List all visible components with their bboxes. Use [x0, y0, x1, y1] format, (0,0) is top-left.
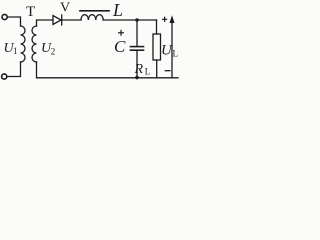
svg-text:2: 2 [51, 47, 56, 57]
wire primary bottom lead [7, 62, 20, 77]
label + (capacitor polarity) [118, 30, 124, 36]
wire secondary bottom lead [36, 62, 38, 78]
diode V [53, 16, 61, 25]
inductor L iron core bar [80, 10, 109, 12]
voltage arrow UL head [170, 15, 175, 23]
wire capacitor lower lead [136, 51, 138, 78]
resistor RL box [153, 34, 161, 60]
terminal (top-left input) [2, 14, 7, 19]
wire right branch down to resistor [156, 20, 158, 34]
node junction bottom (capacitor tap) [135, 76, 139, 80]
transformer T secondary winding [32, 26, 36, 62]
capacitor C plates [131, 46, 144, 48]
label + (UL polarity) [162, 17, 167, 22]
svg-text:R: R [134, 62, 144, 77]
svg-text:T: T [26, 4, 35, 20]
voltage arrow UL line [171, 23, 173, 78]
svg-text:L: L [173, 49, 179, 59]
label minus (UL polarity) [165, 70, 170, 72]
wire secondary top lead to diode [37, 20, 54, 26]
svg-text:U: U [161, 43, 173, 59]
wire resistor bottom lead [156, 60, 158, 78]
wire diode to inductor [62, 19, 81, 21]
terminal (bottom-left input) [2, 74, 7, 79]
wire bottom rail [37, 77, 179, 79]
svg-text:V: V [60, 1, 70, 16]
svg-text:1: 1 [13, 46, 18, 56]
svg-text:C: C [114, 37, 126, 56]
transformer T primary winding [21, 26, 26, 62]
node junction top (capacitor tap) [135, 18, 139, 22]
wire inductor to top-right corner [103, 19, 156, 21]
wire capacitor upper lead [136, 20, 138, 46]
inductor L coil [81, 15, 103, 20]
svg-text:L: L [145, 67, 151, 77]
wire primary top lead [8, 17, 21, 26]
svg-text:L: L [112, 0, 123, 20]
